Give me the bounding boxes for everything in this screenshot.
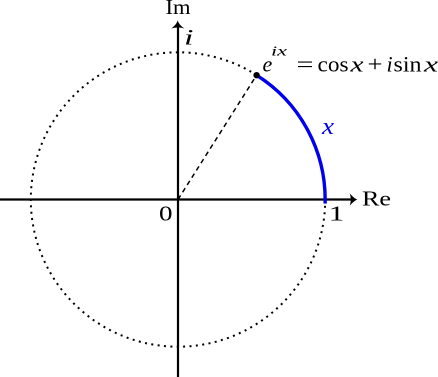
svg-text:0: 0: [159, 202, 173, 226]
svg-text:=: =: [297, 51, 314, 76]
svg-text:i: i: [184, 25, 194, 50]
horizontal axis (Re): [0, 198, 354, 200]
svg-text:Re: Re: [362, 187, 391, 211]
svg-text:x: x: [321, 114, 335, 140]
svg-text:1: 1: [329, 202, 345, 226]
svg-text:x: x: [423, 51, 438, 76]
svg-text:x: x: [349, 51, 364, 76]
vertical axis (Im): [177, 25, 179, 377]
Im axis arrowhead: [171, 20, 184, 28]
svg-text:i: i: [387, 51, 393, 76]
svg-text:ix: ix: [271, 44, 287, 59]
blue arc from angle 0 to point: [257, 75, 326, 203]
dashed radius line to point: [178, 75, 257, 199]
svg-text:+: +: [368, 51, 383, 76]
svg-text:sin: sin: [394, 51, 422, 76]
unit circle (dotted): [31, 52, 325, 346]
svg-text:Im: Im: [166, 0, 191, 19]
point dot on circle: [253, 72, 259, 78]
Re axis arrowhead: [350, 193, 358, 206]
svg-text:cos: cos: [318, 51, 349, 76]
